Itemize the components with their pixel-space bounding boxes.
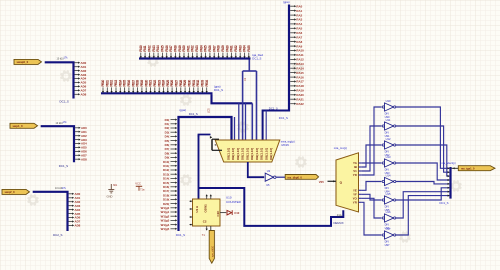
bus 1 (45, 62, 74, 98)
right pin column bus (288, 5, 290, 112)
svg-text:U12: U12 (386, 137, 391, 141)
svg-text:RA16: RA16 (296, 75, 304, 79)
bus 1 pin stubs (74, 61, 86, 97)
mux U8 body (215, 140, 280, 162)
wire demux YF to gate U16 (362, 194, 382, 200)
top pin header row bus (139, 57, 251, 59)
mid vertical bus (179, 117, 232, 231)
second row bus riser (212, 94, 253, 103)
svg-text:RA6: RA6 (296, 31, 302, 35)
svg-text:U10: U10 (226, 196, 232, 200)
svg-text:ma_wlect(p): ma_wlect(p) (442, 161, 456, 165)
buffer gate U15 (382, 118, 396, 138)
harness connector port swp1_0 (10, 123, 38, 128)
bus 3 (33, 192, 68, 231)
svg-text:GND: GND (107, 194, 113, 198)
buffer gate U19 (382, 192, 396, 212)
svg-text:DB[1.10]: DB[1.10] (269, 148, 273, 160)
harness connector port swap0_0 (14, 59, 42, 64)
svg-text:MX15: MX15 (282, 143, 290, 147)
svg-text:VCC: VCC (135, 181, 141, 185)
branch wire to demux select (199, 188, 344, 226)
svg-text:YD: YD (353, 173, 357, 177)
svg-text:RA7: RA7 (296, 35, 302, 39)
mux U8 internal pin names (226, 148, 273, 160)
wire Y-drop from top row bus (248, 60, 250, 72)
buffer gate U17 (382, 155, 396, 175)
svg-text:swp1_0: swp1_0 (13, 124, 24, 128)
wire riser to U8 pin 3 (238, 103, 240, 140)
mux U8 enable pin bracket (210, 136, 212, 139)
svg-text:DC1_S: DC1_S (59, 164, 68, 168)
wire gate U14 output to connector pin 5 (396, 182, 450, 184)
mid bus pin stubs (161, 118, 178, 231)
svg-text:PA27: PA27 (212, 45, 216, 52)
connector to port wire (452, 167, 459, 169)
inverter U2 (265, 173, 273, 181)
wire gate U17 output to connector pin 8 (396, 196, 450, 235)
svg-text:DB[1.10]: DB[1.10] (226, 148, 230, 160)
svg-text:W1(g5: W1(g5 (161, 227, 170, 231)
svg-text:RA21: RA21 (296, 97, 304, 101)
harness connector port swq2_0 (2, 189, 30, 194)
svg-text:swap0_0: swap0_0 (17, 60, 29, 64)
second pin header row bus (101, 92, 213, 94)
demux output wire left (328, 180, 337, 182)
counter bottom pins (206, 226, 208, 230)
svg-text:U14: U14 (386, 173, 391, 177)
svg-text:C1K: C1K (216, 210, 220, 217)
svg-text:PB17: PB17 (131, 80, 135, 87)
wire riser to U8 pin 9 (265, 111, 267, 141)
svg-text:DC2_S: DC2_S (53, 233, 62, 237)
svg-text:RA22: RA22 (296, 102, 304, 106)
svg-text:mx_tga1_0: mx_tga1_0 (461, 167, 475, 171)
wire riser to U8 pin 4 (242, 71, 244, 140)
svg-text:RA0: RA0 (296, 4, 302, 8)
wire riser to U8 pin 5 (245, 103, 247, 140)
svg-text:S10: S10 (337, 213, 342, 217)
svg-text:DC1_S: DC1_S (279, 116, 288, 120)
wire gate U12 output to connector pin 3 (396, 145, 450, 176)
output harness port (458, 166, 495, 171)
svg-text:PA17: PA17 (169, 45, 173, 52)
svg-text:RA9: RA9 (296, 44, 302, 48)
svg-text:DC1_0: DC1_0 (269, 107, 278, 111)
svg-text:RA11: RA11 (296, 53, 304, 57)
wire riser to U8 pin 7 (256, 71, 258, 140)
counter U10 body (193, 199, 221, 226)
svg-text:mta_mx(p): mta_mx(p) (334, 146, 347, 150)
svg-text:RA10: RA10 (296, 49, 304, 53)
wire demux YD to gate U11 (362, 107, 382, 175)
output connector bus (449, 167, 451, 199)
svg-text:DC1_S: DC1_S (189, 112, 198, 116)
svg-text:DEMUX: DEMUX (334, 221, 344, 225)
svg-text:(C2): (C2) (207, 108, 210, 113)
svg-text:RA4: RA4 (296, 22, 302, 26)
buffer gate U21 (382, 227, 396, 247)
svg-text:U11: U11 (386, 118, 391, 122)
wire to counter clk (198, 135, 200, 200)
svg-text:RA18: RA18 (296, 84, 304, 88)
svg-text:U13: U13 (386, 155, 391, 159)
svg-text:V05: V05 (319, 180, 324, 184)
wire gate U16 output to connector pin 7 (396, 192, 450, 218)
buffer gate U20 (382, 210, 396, 230)
inverter output wire (276, 176, 285, 178)
wire gate U13 output to connector pin 4 (396, 163, 450, 180)
wire demux YA to gate U14 (362, 162, 382, 164)
buffer gate U16 (382, 137, 396, 157)
svg-text:sys_clk10: sys_clk10 (211, 245, 214, 257)
svg-text:U97: U97 (385, 243, 390, 247)
svg-text:DC1_S: DC1_S (252, 56, 261, 60)
svg-text:RA17: RA17 (296, 80, 304, 84)
svg-text:DB[1.10]: DB[1.10] (255, 148, 259, 160)
demux right pin stubs (359, 163, 362, 202)
svg-text:U1 H: U1 H (195, 206, 199, 213)
svg-text:U17: U17 (386, 227, 391, 231)
svg-text:AD8: AD8 (81, 93, 87, 97)
svg-text:DB[1.10]: DB[1.10] (260, 148, 264, 160)
svg-text:DB[1.10]: DB[1.10] (245, 148, 249, 160)
svg-text:RA14: RA14 (296, 66, 304, 70)
top row pin stubs (139, 45, 251, 58)
wire gate U11 output to connector pin 2 (396, 126, 450, 172)
svg-text:PA12: PA12 (148, 45, 152, 52)
svg-text:N01: N01 (113, 185, 118, 187)
svg-text:RA15: RA15 (296, 71, 304, 75)
svg-text:PA32: PA32 (234, 45, 238, 52)
svg-text:RA1: RA1 (296, 9, 302, 13)
svg-text:O2W1: O2W1 (204, 204, 208, 213)
svg-text:AD8: AD8 (81, 157, 87, 161)
wire demux YE to gate U15 (362, 182, 382, 191)
svg-text:C10: C10 (234, 211, 240, 215)
second row pin stubs (101, 80, 209, 93)
wire gate U15 output to connector pin 6 (396, 188, 450, 200)
svg-text:U16: U16 (386, 210, 391, 214)
svg-text:PB27: PB27 (175, 80, 179, 87)
watermark gears (61, 71, 72, 82)
svg-text:mx_dbg0_0: mx_dbg0_0 (288, 176, 303, 180)
right column pin stubs (290, 4, 304, 106)
bus 3 pin stubs (68, 192, 80, 228)
mux U8 bottom pin to gate (248, 162, 264, 177)
GND symbol (110, 184, 112, 190)
wire demux YO to gate U17 (362, 198, 382, 218)
svg-text:DB[1.10]: DB[1.10] (241, 148, 245, 160)
svg-text:PB34: PB34 (205, 80, 209, 87)
svg-text:swq2_0: swq2_0 (5, 190, 16, 194)
wire demux V1 to gate U12 (362, 126, 382, 171)
right bus bottom elbow (263, 111, 289, 141)
svg-text:RA20: RA20 (296, 93, 304, 97)
svg-text:RA3: RA3 (296, 18, 302, 22)
svg-text:DC1_S: DC1_S (440, 201, 449, 205)
vertical port below counter (209, 231, 214, 264)
svg-text:U10: U10 (386, 99, 391, 103)
demux U12 body (336, 153, 359, 212)
counter left pins (189, 200, 192, 225)
counter right pin + no-erc (220, 212, 226, 214)
svg-text:PA22: PA22 (191, 45, 195, 52)
mux U8 left pin wire (199, 135, 211, 138)
svg-text:PB22: PB22 (153, 80, 157, 87)
svg-text:C2: C2 (203, 219, 207, 223)
counter top pins (206, 195, 208, 199)
svg-text:PB32: PB32 (196, 80, 200, 87)
svg-text:DC1_S: DC1_S (214, 88, 223, 92)
bus 2 (41, 126, 74, 162)
svg-text:DB[1.10]: DB[1.10] (236, 148, 240, 160)
svg-text:DB[1.10]: DB[1.10] (264, 148, 268, 160)
svg-text:PB12: PB12 (110, 80, 114, 87)
svg-text:U15: U15 (386, 192, 391, 196)
bus 2 pin stubs (75, 126, 87, 161)
svg-text:RA2: RA2 (296, 13, 302, 17)
svg-text:RA13: RA13 (296, 62, 304, 66)
svg-text:U5: U5 (266, 183, 270, 187)
svg-text:DC1_S: DC1_S (176, 233, 185, 237)
wire demux YR to gate U18 (362, 202, 382, 235)
buffer gate U18 (382, 173, 396, 193)
wire gate U10 output to connector pin 1 (396, 107, 450, 168)
svg-text:RA19: RA19 (296, 89, 304, 93)
net label flag mx_dbg (285, 175, 318, 180)
svg-text:RA12: RA12 (296, 58, 304, 62)
wire riser to U8 pin 2 (234, 117, 236, 140)
svg-text:DB[1.10]: DB[1.10] (231, 148, 235, 160)
svg-text:T1w: T1w (140, 190, 145, 192)
wire riser to U8 pin 6 (251, 103, 253, 140)
svg-text:(gpa): (gpa) (180, 108, 187, 112)
wire demux IB to gate U13 (362, 145, 382, 167)
svg-text:U3: U3 (267, 169, 271, 173)
svg-text:DC1_S: DC1_S (60, 99, 69, 103)
buffer gate U14 (382, 99, 396, 119)
svg-text:COUNTER: COUNTER (226, 200, 242, 204)
connector stubs arrows (448, 167, 450, 197)
svg-text:RA5: RA5 (296, 27, 302, 31)
svg-text:DB[1.10]: DB[1.10] (250, 148, 254, 160)
svg-text:RA8: RA8 (296, 40, 302, 44)
svg-text:PA35: PA35 (247, 45, 251, 52)
svg-text:(gpa): (gpa) (283, 0, 290, 4)
svg-text:AD8: AD8 (75, 224, 81, 228)
